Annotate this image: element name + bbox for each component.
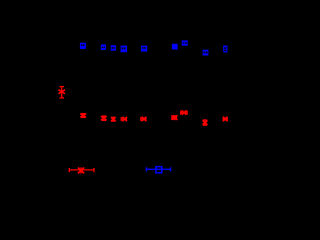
blue series point B9 (223, 46, 227, 53)
blue series point B4 (121, 46, 127, 53)
blue series point B5 (141, 46, 147, 52)
blue series point B3 (111, 45, 116, 51)
red series point R9 (223, 117, 228, 121)
red series point R3 (111, 117, 116, 121)
blue series point B7 (182, 40, 188, 45)
legend red errorbar entry (69, 167, 94, 173)
red series point R2 (101, 116, 107, 121)
blue series point B1 (80, 43, 86, 49)
red series point R7 (181, 110, 188, 114)
blue series point B6 (172, 44, 178, 50)
blue series point B8 (203, 50, 209, 56)
red series point R6 (172, 115, 178, 120)
red series point R8 (203, 120, 208, 126)
red series point R0 (tall y-errorbar) (59, 86, 66, 98)
red series point R5 (x-errorbar) (141, 117, 147, 121)
legend blue errorbar entry (146, 167, 170, 173)
blue series point B2 (101, 44, 106, 50)
red series point R4 (x-errorbar) (121, 117, 127, 121)
red series point R1 (80, 113, 86, 117)
